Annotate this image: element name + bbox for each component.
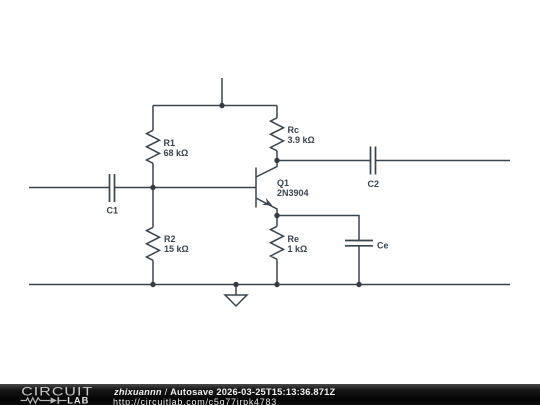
svg-text:Rc: Rc bbox=[288, 125, 300, 135]
svg-text:2N3904: 2N3904 bbox=[277, 188, 309, 198]
svg-text:Ce: Ce bbox=[377, 241, 389, 251]
svg-text:68 kΩ: 68 kΩ bbox=[164, 148, 189, 158]
svg-text:R1: R1 bbox=[164, 138, 176, 148]
svg-text:C2: C2 bbox=[368, 179, 380, 189]
svg-text:C1: C1 bbox=[107, 206, 119, 216]
svg-text:R2: R2 bbox=[164, 234, 176, 244]
svg-text:Re: Re bbox=[288, 234, 300, 244]
svg-text:1 kΩ: 1 kΩ bbox=[288, 244, 308, 254]
svg-text:Q1: Q1 bbox=[277, 178, 289, 188]
svg-text:15 kΩ: 15 kΩ bbox=[164, 244, 189, 254]
svg-text:LAB: LAB bbox=[67, 395, 89, 405]
svg-text:3.9 kΩ: 3.9 kΩ bbox=[288, 135, 315, 145]
